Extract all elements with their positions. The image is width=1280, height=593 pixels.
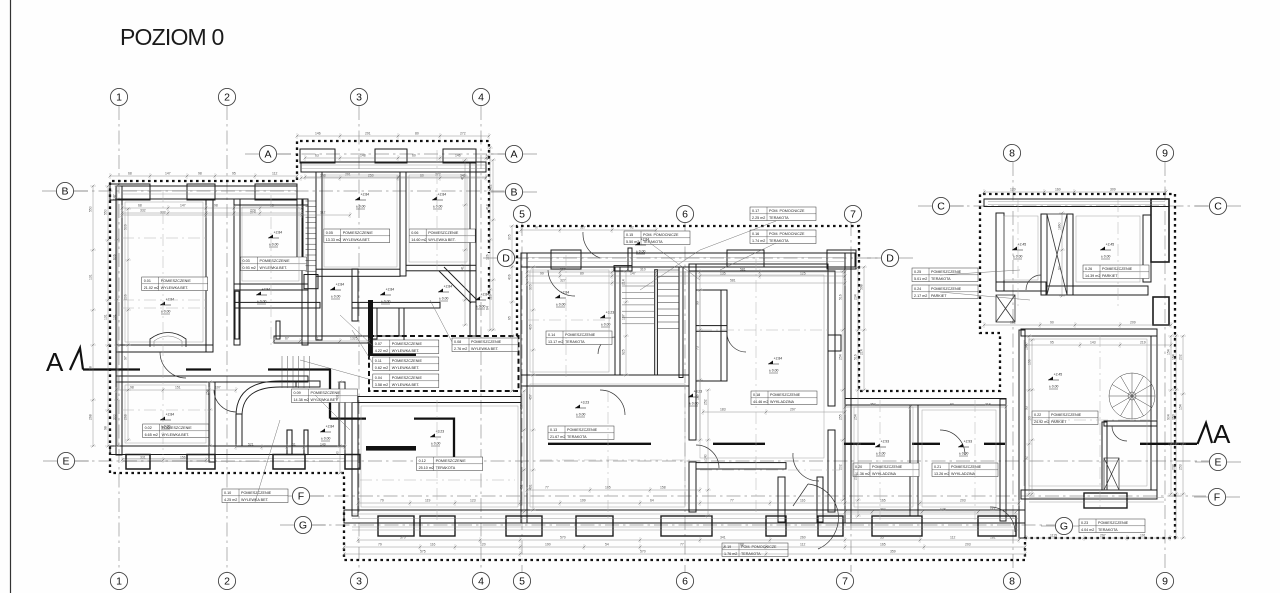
room label 0.22 — [1032, 411, 1098, 425]
svg-text:± 0.00: ± 0.00 — [381, 300, 391, 304]
small shaft west wall — [352, 269, 358, 321]
svg-text:1325: 1325 — [350, 337, 358, 341]
svg-text:WYLEWKA BET.: WYLEWKA BET. — [311, 398, 339, 402]
room label 0.25 — [912, 268, 978, 282]
C block east outer wall bold — [1151, 199, 1169, 262]
south pier b6 — [766, 516, 786, 536]
thick wall bar room 0.12 top — [366, 446, 416, 451]
axis A left — [259, 145, 276, 162]
svg-text:305: 305 — [529, 284, 533, 290]
svg-text:POM. POMOCNICZE: POM. POMOCNICZE — [769, 232, 805, 236]
stair east wall — [679, 267, 683, 378]
lower strip north wall — [116, 376, 308, 382]
small rooms east wall — [721, 290, 727, 381]
svg-text:0.10: 0.10 — [224, 491, 231, 495]
A-block west wall — [316, 172, 322, 340]
svg-text:95: 95 — [1050, 341, 1054, 345]
north wall pier 3 — [255, 184, 297, 200]
svg-text:146: 146 — [696, 394, 700, 400]
room label 0.20 — [853, 463, 919, 477]
svg-text:TERAKOTA: TERAKOTA — [565, 340, 585, 344]
door right block bottom — [990, 507, 1015, 532]
svg-text:± 0.00: ± 0.00 — [431, 442, 441, 446]
north wall pier 2 — [187, 184, 215, 200]
middle north pier 3 — [827, 250, 856, 269]
C block east outer wall bold lower — [1153, 297, 1169, 325]
svg-text:9: 9 — [1162, 576, 1168, 588]
svg-text:14.39 m2: 14.39 m2 — [1085, 274, 1100, 278]
svg-text:+2.84: +2.84 — [262, 287, 271, 291]
svg-text:± 0.00: ± 0.00 — [476, 305, 486, 309]
svg-text:97: 97 — [535, 226, 539, 230]
elevation marker — [160, 412, 174, 429]
svg-text:POMIESZCZENIE: POMIESZCZENIE — [392, 359, 423, 363]
leader lines — [255, 221, 1030, 502]
svg-text:88: 88 — [740, 543, 744, 547]
axis F right — [1208, 488, 1225, 505]
svg-text:14.38 m2: 14.38 m2 — [294, 398, 309, 402]
svg-text:51: 51 — [292, 443, 296, 447]
pier bump 0.18 — [828, 335, 841, 351]
svg-text:50: 50 — [336, 451, 340, 455]
svg-text:+2.93: +2.93 — [964, 439, 973, 443]
svg-text:1: 1 — [116, 92, 122, 104]
door room 0.16 — [600, 390, 625, 415]
svg-text:6: 6 — [682, 209, 688, 221]
room 0.02 east wall — [209, 382, 215, 462]
svg-text:79: 79 — [380, 499, 384, 503]
wall between 0.20 and 0.21 — [910, 405, 918, 516]
svg-text:4.04 m2: 4.04 m2 — [1081, 528, 1094, 532]
right block north wall — [1021, 329, 1157, 336]
bottom strip north wall — [352, 397, 521, 403]
axis D right — [881, 249, 898, 266]
svg-text:158: 158 — [660, 486, 666, 490]
svg-text:190: 190 — [545, 543, 551, 547]
door room 0.14 east — [598, 337, 615, 354]
svg-text:POZIOM 0: POZIOM 0 — [120, 24, 224, 50]
inner dashed rectangle around small rooms labels — [369, 336, 519, 391]
south pier 3 — [273, 455, 305, 470]
shaft wall 0.22 — [1102, 422, 1107, 490]
svg-text:598: 598 — [860, 284, 864, 290]
svg-text:297: 297 — [1100, 534, 1106, 538]
svg-text:PARKIET: PARKIET — [931, 294, 947, 298]
svg-text:165: 165 — [880, 543, 886, 547]
svg-text:1860: 1860 — [1058, 222, 1062, 230]
svg-text:327: 327 — [560, 279, 566, 283]
wall below 0.03 west — [235, 291, 239, 339]
A-block east wall lower part — [470, 302, 476, 336]
svg-text:272: 272 — [460, 132, 466, 136]
svg-text:120: 120 — [1010, 188, 1016, 192]
grid axis 3 top circle — [350, 88, 367, 105]
svg-text:4: 4 — [478, 92, 484, 104]
svg-text:112: 112 — [990, 508, 996, 512]
room 0.09 curved wall — [236, 381, 296, 416]
room 0.03 east wall — [302, 199, 308, 345]
dotted building envelope boundary (main) — [110, 141, 1175, 560]
elevation marker — [1012, 242, 1026, 259]
svg-text:+2.84: +2.84 — [774, 356, 783, 360]
svg-text:183: 183 — [720, 408, 726, 412]
svg-text:0.62 m2: 0.62 m2 — [375, 366, 388, 370]
svg-text:65: 65 — [508, 316, 512, 320]
svg-text:0.03: 0.03 — [243, 259, 250, 263]
svg-text:0.07: 0.07 — [375, 342, 382, 346]
svg-text:POMIESZCZENIE: POMIESZCZENIE — [260, 259, 291, 263]
grid axis 2 top circle — [218, 88, 235, 105]
room label 0.07 — [373, 340, 439, 354]
svg-text:154: 154 — [1172, 354, 1176, 360]
elevation marker — [875, 439, 889, 456]
svg-text:6: 6 — [682, 576, 688, 588]
svg-text:60: 60 — [412, 154, 416, 158]
room label 0.15 — [624, 231, 690, 245]
south pier b4 — [576, 516, 613, 536]
svg-text:202: 202 — [839, 464, 843, 470]
left block west outer wall — [116, 186, 122, 455]
svg-text:268: 268 — [124, 414, 128, 420]
room label 0.02 — [143, 424, 209, 438]
section line A-A left part segments — [83, 370, 479, 467]
svg-text:79: 79 — [378, 543, 382, 547]
room 0.05 south wall — [316, 269, 400, 276]
axis C left — [932, 197, 949, 214]
svg-text:431: 431 — [520, 484, 524, 490]
svg-text:112: 112 — [272, 172, 278, 176]
svg-text:WYKLADZINA: WYKLADZINA — [951, 472, 976, 476]
svg-text:WYLEWKA BET.: WYLEWKA BET. — [392, 366, 420, 370]
svg-text:191: 191 — [1140, 534, 1146, 538]
elevation marker — [380, 287, 394, 304]
svg-text:77: 77 — [680, 543, 684, 547]
section marker A letter right — [1198, 419, 1232, 449]
svg-text:297: 297 — [790, 408, 796, 412]
svg-text:WYLEWKA BET.: WYLEWKA BET. — [260, 266, 288, 270]
door room 0.10 — [214, 390, 236, 412]
svg-text:250: 250 — [368, 174, 374, 178]
svg-text:305: 305 — [508, 234, 512, 240]
svg-text:90: 90 — [1058, 266, 1062, 270]
axis E left — [57, 452, 74, 469]
grid axis 8 bottom circle — [1003, 572, 1020, 589]
svg-text:219: 219 — [985, 403, 991, 407]
svg-text:98: 98 — [214, 204, 218, 208]
vestibule east wall — [817, 477, 823, 522]
svg-text:25.10 m2: 25.10 m2 — [419, 466, 434, 470]
svg-text:+2.45: +2.45 — [1018, 242, 1027, 246]
svg-text:123: 123 — [470, 499, 476, 503]
svg-text:0.16: 0.16 — [752, 232, 759, 236]
svg-text:126: 126 — [489, 294, 493, 300]
svg-text:0.17: 0.17 — [752, 209, 759, 213]
svg-text:327: 327 — [560, 268, 566, 272]
svg-text:131: 131 — [104, 314, 108, 320]
svg-text:WYLEWKA BET.: WYLEWKA BET. — [428, 238, 456, 242]
building south outer wall — [344, 510, 1025, 523]
long wall east of 0.13 lower — [689, 462, 696, 512]
svg-text:7: 7 — [850, 209, 856, 221]
svg-text:1115: 1115 — [1050, 534, 1057, 538]
elevation marker — [1100, 242, 1114, 259]
svg-text:± 0.00: ± 0.00 — [1049, 385, 1059, 389]
svg-text:44.46 m2: 44.46 m2 — [753, 400, 768, 404]
axis C right — [1209, 197, 1226, 214]
svg-text:431: 431 — [529, 484, 533, 490]
svg-text:+2.84: +2.84 — [641, 237, 650, 241]
room label 0.18 — [751, 391, 817, 405]
svg-text:TERAKOTA: TERAKOTA — [567, 435, 587, 439]
svg-text:POMIESZCZENIE: POMIESZCZENIE — [770, 393, 801, 397]
svg-text:550: 550 — [89, 206, 93, 212]
wall above room 0.19 — [696, 463, 786, 469]
dimension chain lines and numbers — [89, 132, 1187, 558]
svg-text:POMIESZCZENIE: POMIESZCZENIE — [565, 333, 596, 337]
svg-text:+2.84: +2.84 — [361, 192, 370, 196]
svg-text:3: 3 — [356, 92, 362, 104]
svg-text:+2.84: +2.84 — [326, 424, 335, 428]
svg-text:A: A — [1213, 419, 1231, 449]
room 0.09 east wall — [339, 382, 345, 446]
svg-text:+2.45: +2.45 — [1054, 372, 1063, 376]
svg-text:199: 199 — [580, 499, 586, 503]
svg-text:570: 570 — [560, 536, 566, 540]
svg-text:457: 457 — [520, 404, 524, 410]
north wall pier 1 — [110, 184, 150, 200]
svg-text:8: 8 — [1009, 148, 1015, 160]
svg-text:POMIESZCZENIE: POMIESZCZENIE — [1098, 521, 1129, 525]
svg-text:64: 64 — [650, 499, 654, 503]
svg-text:F: F — [298, 491, 304, 503]
svg-text:209: 209 — [1130, 321, 1136, 325]
svg-text:+3.23: +3.23 — [694, 389, 703, 393]
svg-text:204: 204 — [880, 508, 886, 512]
svg-text:119: 119 — [425, 499, 431, 503]
room label 0.12 — [417, 457, 483, 471]
svg-text:POMIESZCZENIE: POMIESZCZENIE — [392, 376, 423, 380]
svg-text:93: 93 — [1025, 406, 1029, 410]
svg-text:68: 68 — [128, 172, 132, 176]
svg-text:412: 412 — [486, 154, 490, 160]
elevation marker — [160, 297, 174, 314]
wall between 0.14 and 0.13 — [521, 375, 689, 386]
svg-text:0.11: 0.11 — [375, 359, 382, 363]
room label 0.17 — [750, 207, 816, 221]
svg-text:148: 148 — [940, 508, 946, 512]
svg-text:POMIESZCZENIE: POMIESZCZENIE — [1102, 267, 1133, 271]
svg-text:406: 406 — [508, 274, 512, 280]
entrance door leaf and swing — [793, 484, 838, 549]
door middle block top — [583, 232, 600, 258]
svg-text:POMIESZCZENIE: POMIESZCZENIE — [931, 287, 962, 291]
room finish inner offset lines — [125, 175, 1147, 507]
svg-text:0.22: 0.22 — [1034, 413, 1041, 417]
svg-text:219: 219 — [1140, 341, 1146, 345]
grid axis 6 bottom circle — [676, 572, 693, 589]
svg-text:TERAKOTA: TERAKOTA — [931, 277, 951, 281]
A-block pier 1 — [300, 149, 335, 163]
svg-text:PARKIET: PARKIET — [1051, 420, 1067, 424]
faint interior guide lines — [122, 150, 1160, 520]
svg-text:0.93 m2: 0.93 m2 — [243, 266, 256, 270]
svg-text:POMIESZCZENIE: POMIESZCZENIE — [1051, 413, 1082, 417]
svg-text:POMIESZCZENIE: POMIESZCZENIE — [428, 231, 459, 235]
svg-text:POMIESZCZENIE: POMIESZCZENIE — [392, 342, 423, 346]
grid axis 9 bottom circle — [1156, 572, 1173, 589]
elevation marker — [688, 389, 702, 406]
grid axis 4 bottom circle — [472, 572, 489, 589]
rooms 0.20/0.21 north wall — [845, 399, 1006, 406]
svg-text:521: 521 — [248, 443, 254, 447]
svg-text:80: 80 — [415, 132, 419, 136]
grid axis horizontal dash-dot lines — [74, 154, 1210, 525]
X hatched pier below C block — [996, 295, 1015, 322]
door room 0.21 — [940, 430, 965, 455]
svg-text:253: 253 — [1179, 464, 1183, 470]
svg-text:4.25 m2: 4.25 m2 — [224, 498, 237, 502]
svg-text:300: 300 — [113, 414, 117, 420]
svg-text:0.13: 0.13 — [550, 428, 557, 432]
svg-text:POMIESZCZENIE: POMIESZCZENIE — [872, 465, 903, 469]
svg-text:2: 2 — [224, 576, 230, 588]
south pier b8 — [872, 516, 922, 536]
svg-text:257: 257 — [870, 403, 876, 407]
svg-text:232: 232 — [1172, 464, 1176, 470]
svg-text:WYLEWKA BET.: WYLEWKA BET. — [392, 349, 420, 353]
shaft with X brace right block — [1104, 458, 1119, 490]
svg-text:TERAKOTA: TERAKOTA — [436, 466, 456, 470]
svg-text:± 0.00: ± 0.00 — [161, 425, 171, 429]
svg-text:E: E — [62, 456, 69, 468]
svg-text:581: 581 — [730, 279, 736, 283]
section line A-A right part segments — [548, 443, 1197, 445]
grid axis 6 top circle — [676, 205, 693, 222]
door room 0.25 — [1026, 275, 1041, 290]
svg-text:327: 327 — [580, 226, 586, 230]
svg-text:0.01: 0.01 — [144, 279, 151, 283]
svg-text:13.33 m2: 13.33 m2 — [326, 238, 341, 242]
svg-text:904: 904 — [1167, 414, 1171, 420]
svg-text:331: 331 — [140, 456, 146, 460]
svg-text:202: 202 — [1179, 354, 1183, 360]
svg-text:POMIESZCZENIE: POMIESZCZENIE — [161, 279, 192, 283]
svg-text:+2.84: +2.84 — [438, 192, 447, 196]
svg-text:154: 154 — [1179, 404, 1183, 410]
middle block west wall — [521, 253, 527, 523]
svg-text:64: 64 — [486, 306, 490, 310]
svg-text:0.09: 0.09 — [294, 391, 301, 395]
room label 0.11 — [373, 357, 439, 371]
south pier 2 — [187, 455, 215, 470]
svg-text:92: 92 — [630, 226, 634, 230]
svg-text:+2.84: +2.84 — [166, 412, 175, 416]
grid axis 5 bottom circle — [513, 572, 530, 589]
room 0.01 south wall — [116, 345, 213, 352]
door vestibule — [793, 453, 819, 481]
svg-text:147: 147 — [180, 204, 186, 208]
stair mid rail — [655, 270, 658, 375]
thick black L wall at label area left — [368, 300, 373, 356]
svg-text:1.74 m2: 1.74 m2 — [752, 239, 765, 243]
elevation marker — [430, 429, 444, 446]
room label 0.23 — [1079, 519, 1145, 533]
svg-text:13.17 m2: 13.17 m2 — [548, 340, 563, 344]
wall stub 0.09 south a — [287, 430, 292, 455]
svg-text:181: 181 — [990, 536, 996, 540]
svg-text:509: 509 — [124, 224, 128, 230]
svg-text:3: 3 — [356, 576, 362, 588]
middle north pier 1 — [551, 250, 581, 269]
svg-text:C: C — [937, 201, 945, 213]
svg-text:196: 196 — [1025, 344, 1029, 350]
room label 0.21 — [932, 463, 998, 477]
svg-text:149: 149 — [320, 443, 326, 447]
svg-text:925: 925 — [622, 349, 626, 355]
svg-text:98: 98 — [104, 426, 108, 430]
svg-text:WYLEWKA BET.: WYLEWKA BET. — [241, 498, 269, 502]
svg-text:A: A — [264, 149, 271, 161]
svg-text:0.23: 0.23 — [1081, 521, 1088, 525]
svg-text:± 0.00: ± 0.00 — [269, 243, 279, 247]
svg-text:POMIESZCZENIE: POMIESZCZENIE — [931, 270, 962, 274]
room 0.03 west wall — [234, 199, 240, 345]
svg-text:2.25 m2: 2.25 m2 — [752, 216, 765, 220]
room label 0.09 — [292, 389, 358, 403]
svg-text:309: 309 — [1110, 188, 1116, 192]
south pier b2 — [420, 516, 455, 536]
room label 0.05 — [324, 229, 390, 243]
svg-text:± 0.00: ± 0.00 — [876, 452, 886, 456]
svg-text:203: 203 — [960, 499, 966, 503]
south pier b3 — [506, 516, 542, 536]
svg-text:POMIESZCZENIE: POMIESZCZENIE — [567, 428, 598, 432]
svg-text:252: 252 — [704, 399, 708, 405]
svg-text:14.60 m2: 14.60 m2 — [411, 238, 426, 242]
svg-text:E: E — [1214, 457, 1221, 469]
elevation marker — [555, 290, 569, 307]
corridor wall below 0.05 east part — [352, 302, 440, 308]
svg-text:341: 341 — [720, 536, 726, 540]
svg-text:0.26: 0.26 — [1085, 267, 1092, 271]
svg-text:C: C — [1214, 201, 1222, 213]
middle north pier 2 — [727, 250, 764, 267]
elevation marker — [575, 400, 589, 417]
svg-text:± 0.00: ± 0.00 — [636, 250, 646, 254]
south pier 4 — [345, 455, 360, 470]
svg-text:359: 359 — [890, 550, 896, 554]
svg-text:+2.84: +2.84 — [561, 290, 570, 294]
svg-text:137: 137 — [622, 314, 626, 320]
south wall sill lines — [122, 459, 345, 462]
room 0.25 south wall — [996, 282, 1046, 291]
svg-text:268: 268 — [89, 414, 93, 420]
elevation marker — [768, 356, 782, 373]
arched niche bow — [150, 333, 186, 348]
svg-text:D: D — [886, 253, 894, 265]
grid axis 1 bottom circle — [110, 572, 127, 589]
svg-text:B: B — [510, 187, 517, 199]
svg-text:± 0.00: ± 0.00 — [1101, 255, 1111, 259]
svg-text:5: 5 — [519, 576, 525, 588]
svg-text:± 0.00: ± 0.00 — [556, 303, 566, 307]
elevation marker — [600, 310, 614, 327]
svg-text:0.05: 0.05 — [326, 231, 333, 235]
stair top jog wall — [614, 266, 632, 271]
elevation marker — [475, 292, 489, 309]
svg-text:112: 112 — [320, 211, 326, 215]
elevation marker — [958, 439, 972, 456]
